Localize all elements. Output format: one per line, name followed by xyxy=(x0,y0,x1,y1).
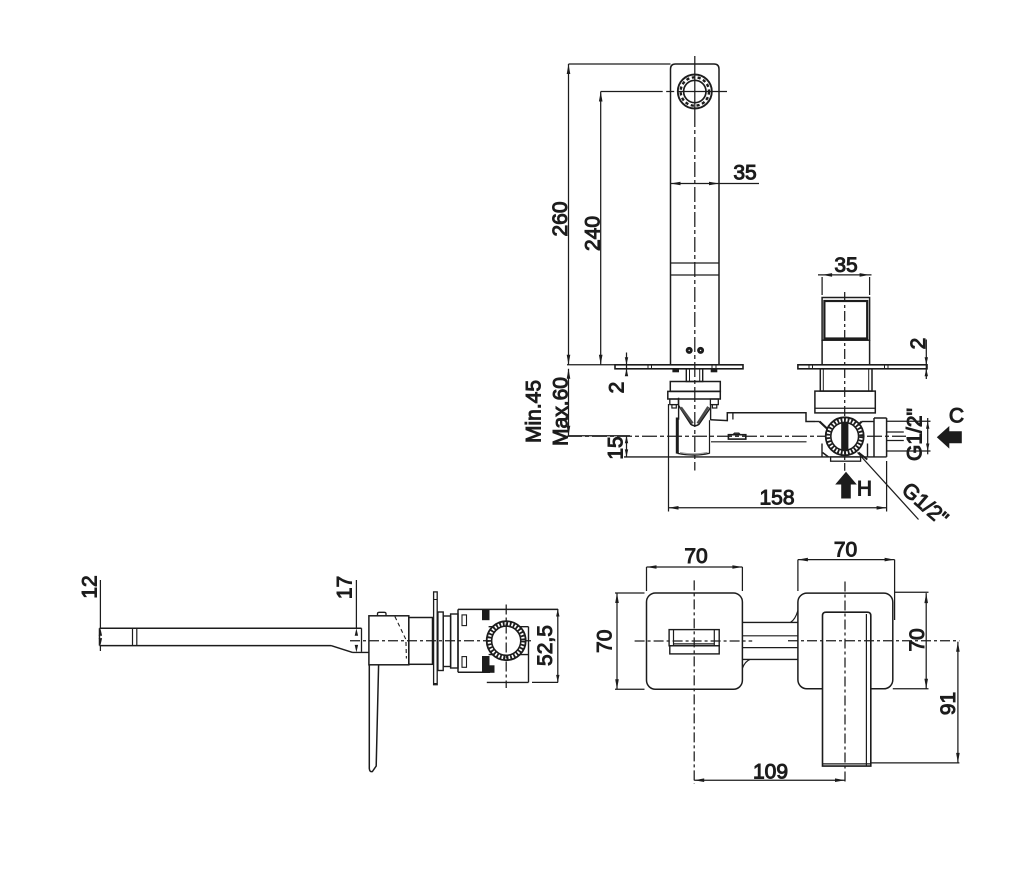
dim 70 left xyxy=(594,593,645,689)
svg-text:17: 17 xyxy=(334,576,357,599)
dim 91 xyxy=(871,642,960,763)
side centerline xyxy=(350,640,533,642)
valve lower clamp xyxy=(823,453,868,462)
svg-text:52,5: 52,5 xyxy=(534,625,557,666)
valve stem box xyxy=(822,298,870,341)
dim 12 xyxy=(79,575,103,651)
dim 70 top-left xyxy=(647,545,743,591)
connecting spout tube xyxy=(742,611,798,669)
escutcheon plate (side) xyxy=(434,592,438,685)
svg-text:158: 158 xyxy=(759,487,794,510)
svg-text:35: 35 xyxy=(834,254,857,277)
flange bolts xyxy=(670,399,719,408)
knurled nut (side) xyxy=(487,621,526,660)
knurl crosshair xyxy=(505,605,507,689)
svg-text:70: 70 xyxy=(684,545,707,568)
aerator circle xyxy=(678,75,712,109)
svg-text:35: 35 xyxy=(733,162,756,185)
spout flange xyxy=(670,382,720,392)
body end cap xyxy=(874,418,887,457)
cartridge flanges xyxy=(438,612,458,671)
dim 240 xyxy=(582,92,605,365)
svg-text:2: 2 xyxy=(907,338,930,350)
spout column joint band xyxy=(671,263,720,275)
valve circle xyxy=(826,417,864,455)
svg-text:70: 70 xyxy=(594,630,617,653)
left square plate xyxy=(647,593,743,689)
dim 2 (left plate) xyxy=(606,353,629,394)
svg-text:91: 91 xyxy=(937,692,960,715)
dim 35 (valve) xyxy=(818,254,872,295)
inlet funnel xyxy=(679,398,711,426)
valve body (side) xyxy=(458,609,494,672)
dim 70 right xyxy=(893,592,929,689)
left square crosshair xyxy=(635,580,753,783)
handle body block xyxy=(369,612,409,665)
dim 2 (right plate) xyxy=(907,338,930,379)
valve clamp bevels xyxy=(815,422,874,457)
dim 158 xyxy=(669,404,887,512)
right square crosshair xyxy=(788,582,959,784)
body set-screw detail xyxy=(728,433,745,439)
valve flange xyxy=(820,369,872,391)
svg-text:109: 109 xyxy=(753,761,788,784)
svg-text:260: 260 xyxy=(549,201,572,236)
body centerline xyxy=(567,435,906,437)
svg-text:70: 70 xyxy=(834,539,857,562)
dim G1/2 port xyxy=(887,408,931,461)
valve body box xyxy=(815,391,875,413)
right square plate xyxy=(798,593,893,689)
dim Min.45 Max.60 xyxy=(523,369,631,446)
drop tube xyxy=(677,418,709,456)
dim 260 xyxy=(549,64,671,365)
svg-text:H: H xyxy=(857,478,872,501)
spout neck xyxy=(686,369,702,382)
wall plate (right, edge view) xyxy=(798,365,927,369)
socket behind knurl xyxy=(487,627,529,683)
aerator crosshair xyxy=(601,56,727,112)
cartridge sleeve xyxy=(409,618,433,665)
body tube outline xyxy=(624,413,887,457)
svg-text:12: 12 xyxy=(79,575,102,598)
spout centerline xyxy=(694,112,696,471)
plate screws below xyxy=(673,369,717,372)
spout flange lip xyxy=(668,391,721,399)
leader G1/2 xyxy=(858,453,953,531)
hot arrow H xyxy=(835,472,872,501)
svg-text:G1/2": G1/2" xyxy=(904,408,927,461)
dim 15 xyxy=(605,436,629,460)
dim 70 top-right xyxy=(798,539,895,621)
wall plate (left, edge view) xyxy=(615,365,743,369)
dim 52,5 xyxy=(458,609,560,682)
cold arrow C xyxy=(937,405,964,449)
valve centerline xyxy=(844,292,846,471)
svg-text:C: C xyxy=(949,405,964,428)
spout column (front view) xyxy=(671,64,720,365)
dim 35 (spout width) xyxy=(671,162,760,186)
mounting screws xyxy=(686,348,703,354)
spout outlet xyxy=(669,630,719,654)
handle lever (side) xyxy=(369,665,378,772)
svg-text:2: 2 xyxy=(606,382,629,394)
valve stem lower xyxy=(822,340,870,365)
dim 109 xyxy=(694,761,845,784)
extension line plate xyxy=(567,364,615,366)
svg-text:Min.45: Min.45 xyxy=(523,380,546,443)
spout (side view) xyxy=(100,628,369,652)
dim 17 xyxy=(334,576,359,653)
svg-text:240: 240 xyxy=(582,216,605,251)
svg-text:70: 70 xyxy=(906,628,929,651)
port bore lines xyxy=(887,432,904,441)
handle (front) xyxy=(823,612,871,766)
svg-text:15: 15 xyxy=(605,436,628,459)
